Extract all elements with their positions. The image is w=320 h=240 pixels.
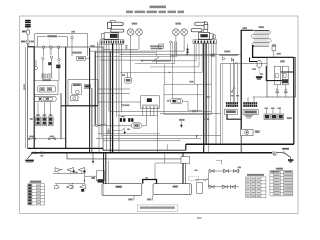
- wire: [108, 43, 110, 112]
- caption box: [137, 205, 178, 211]
- table B header: [276, 168, 283, 170]
- relay contact a: [40, 88, 45, 91]
- wire stub: [35, 60, 37, 66]
- label a small: [125, 45, 127, 46]
- diode D7: [209, 169, 213, 173]
- switch housing Rb: [282, 66, 288, 85]
- wire corner: [142, 43, 196, 61]
- diode D2: [67, 168, 74, 172]
- label A98 right: [260, 73, 263, 75]
- diode D8: [223, 169, 227, 173]
- wire: [110, 111, 211, 113]
- heavy jumper boxes: [143, 180, 157, 184]
- junction: [186, 54, 187, 55]
- switch plug 2: [210, 33, 214, 40]
- relay group outer: [34, 81, 58, 95]
- box center: [164, 84, 211, 114]
- label 4x2: [273, 154, 277, 155]
- wire: [96, 137, 201, 139]
- wire row2 right: [208, 186, 239, 188]
- label a1: [190, 81, 194, 83]
- heavy wire center b: [205, 43, 207, 144]
- capsule V pump: [131, 123, 142, 128]
- wire corner: [183, 101, 203, 110]
- contact circle: [42, 57, 44, 59]
- wire: [101, 43, 103, 137]
- heavy wire strip1: [112, 43, 114, 153]
- ground lever left: [27, 153, 32, 159]
- diode module b: [48, 74, 52, 78]
- fuse block 3: [48, 117, 53, 126]
- wire: [166, 144, 168, 150]
- fuse block 3 label: [49, 114, 53, 116]
- wire link rows: [84, 171, 86, 184]
- wire: [272, 109, 274, 114]
- switch F2: [48, 138, 50, 140]
- dashed contact: [155, 51, 157, 57]
- pin Rb: [285, 89, 287, 91]
- diode D12: [231, 185, 235, 189]
- wire: [155, 162, 181, 164]
- page number: [197, 217, 202, 219]
- wire: [118, 115, 158, 117]
- label N23: [259, 26, 264, 28]
- comp A32: [272, 46, 276, 50]
- dark connector box: [282, 79, 288, 83]
- diode D6: [80, 185, 86, 189]
- wire: [24, 47, 26, 148]
- wire: [58, 61, 60, 81]
- wire row1 right: [208, 170, 240, 172]
- lamp W33: [181, 29, 188, 36]
- ground left bar: [25, 160, 34, 162]
- ground A98: [256, 76, 263, 78]
- box motor V2: [241, 129, 253, 135]
- wire: [154, 163, 156, 180]
- ignition lever bar2: [111, 29, 124, 32]
- wire corner: [120, 43, 202, 72]
- wire: [104, 48, 138, 50]
- label KL30 right: [242, 27, 247, 29]
- wire: [98, 88, 130, 90]
- wire: [149, 108, 151, 116]
- relay J32 rounded: [72, 83, 82, 94]
- connector box small: [181, 157, 190, 164]
- fuse block 1: [36, 117, 41, 126]
- label a2 r2: [235, 63, 238, 64]
- wire: [175, 35, 177, 54]
- diode sym a: [222, 57, 225, 61]
- wire: [170, 55, 214, 57]
- lamp W6: [127, 29, 134, 36]
- dark connector: [84, 85, 90, 89]
- wire: [96, 42, 98, 125]
- label KL15: [90, 45, 95, 47]
- wire arrow REPU: [180, 121, 182, 125]
- wire: [98, 101, 141, 103]
- heavy wire: [89, 48, 91, 153]
- wire: [100, 59, 171, 61]
- pin Ra: [276, 89, 278, 91]
- pin circle: [170, 41, 172, 43]
- connector pair a: [120, 118, 122, 122]
- switch small box 2: [204, 29, 208, 32]
- labels M: [43, 79, 51, 81]
- heavy elbow coil: [253, 46, 294, 58]
- junction: [169, 72, 170, 73]
- contact circle: [50, 56, 52, 58]
- wire: [37, 102, 39, 117]
- wire corner: [95, 42, 177, 57]
- heavy bus right lower: [240, 136, 242, 153]
- wire: [210, 43, 212, 84]
- wire corner: [150, 43, 199, 67]
- big box E2: [153, 184, 191, 195]
- wire dotted: [195, 179, 209, 181]
- box control R2: [221, 64, 294, 145]
- switch F row wire: [28, 138, 66, 140]
- wire corner: [152, 43, 171, 61]
- legend table: [28, 183, 45, 185]
- label switch: [282, 148, 289, 150]
- label A98 left: [252, 68, 256, 70]
- trio labels right: [265, 108, 268, 110]
- label tW2: [206, 96, 210, 98]
- label F1: [29, 136, 33, 138]
- table A: [246, 176, 266, 178]
- label N25: [277, 53, 281, 55]
- wire row2 left: [55, 183, 85, 185]
- diode sym b: [231, 58, 234, 62]
- bus connector circles: [272, 152, 274, 154]
- heavy wire divider: [65, 47, 67, 148]
- pump inner: [43, 97, 52, 100]
- pin numbers: [142, 105, 158, 106]
- wire: [193, 44, 195, 84]
- wire: [157, 108, 159, 153]
- wire: [50, 102, 52, 117]
- switch housing 2: [199, 32, 210, 39]
- label t2: [192, 111, 196, 113]
- wire: [247, 97, 249, 102]
- big box E1: [102, 184, 142, 196]
- wire: [232, 60, 234, 102]
- legend header: [30, 181, 41, 183]
- label KL30: [22, 31, 26, 33]
- label F15: [284, 92, 288, 94]
- fuse trio right a: [264, 114, 270, 119]
- box E3: [197, 182, 203, 193]
- box corner top: [216, 160, 222, 164]
- half dark box: [96, 171, 104, 181]
- wire: [164, 94, 203, 96]
- label TW: [280, 60, 285, 62]
- bus corner wire: [67, 153, 181, 159]
- label N280: [72, 52, 82, 54]
- label Ay: [30, 118, 33, 120]
- ignition housing: [104, 33, 118, 39]
- box J32: [68, 80, 98, 106]
- relay J-inner: [38, 86, 56, 92]
- motor box: [71, 96, 78, 101]
- lamp label W32: [175, 23, 181, 25]
- label uv: [75, 172, 77, 174]
- stub label a: [128, 198, 132, 200]
- wire: [253, 97, 255, 102]
- bus slash: [37, 152, 41, 154]
- lamp W7: [136, 29, 143, 36]
- dashed wire: [49, 39, 51, 54]
- wire corner: [172, 42, 174, 99]
- wire row1 left: [53, 173, 85, 175]
- label a2 top: [71, 31, 75, 33]
- wire: [42, 60, 44, 81]
- wire: [33, 33, 35, 49]
- heavy stub: [182, 153, 184, 157]
- lamp W32: [173, 29, 180, 36]
- fuse block 1 label: [36, 114, 40, 116]
- wire corner: [135, 42, 175, 64]
- relay J-mid pins: [142, 106, 143, 107]
- junction: [141, 60, 142, 61]
- rail step right: [185, 144, 187, 150]
- switch housing Ra: [274, 66, 280, 85]
- wire: [90, 50, 184, 52]
- wire: [98, 93, 130, 95]
- bus stub arrow: [92, 153, 94, 162]
- relay J-mid core: [147, 98, 152, 102]
- heavy wire inner: [60, 93, 62, 139]
- wire: [130, 35, 132, 77]
- wire: [160, 112, 221, 114]
- label AL: [287, 117, 292, 119]
- connector pair b: [128, 118, 130, 122]
- wire: [233, 64, 235, 102]
- wire: [213, 43, 215, 56]
- switch slash: [154, 57, 159, 61]
- wire: [43, 49, 45, 57]
- wire: [146, 108, 148, 126]
- heavy feed top: [241, 29, 253, 31]
- wire: [105, 43, 107, 150]
- wire: [118, 43, 120, 153]
- relay J59: [71, 36, 74, 39]
- bus switch wire: [276, 152, 283, 154]
- relay N24: [125, 78, 132, 84]
- label ts: [195, 170, 198, 172]
- wire: [98, 125, 132, 127]
- terminal 15: [50, 46, 53, 49]
- label N24: [122, 74, 125, 76]
- label S-fuse left: [21, 41, 25, 43]
- heavy wire: [91, 88, 93, 153]
- wire: [27, 27, 29, 30]
- wire: [142, 125, 147, 127]
- wire: [98, 133, 160, 135]
- diode D5: [66, 185, 72, 189]
- wire: [164, 64, 166, 84]
- sensor G: [26, 40, 30, 44]
- heavy elbow R2: [227, 114, 241, 119]
- wire to box: [85, 175, 97, 177]
- lamp label W6: [132, 23, 138, 25]
- label F129 lines: [150, 45, 163, 47]
- capsule GM pin: [167, 100, 169, 102]
- component N280: [77, 56, 86, 60]
- wire: [183, 35, 185, 51]
- wire: [121, 43, 123, 112]
- diode D3: [78, 168, 85, 172]
- wire: [127, 72, 129, 77]
- main ground bus: [31, 152, 272, 154]
- wire: [215, 43, 217, 144]
- rail step left: [102, 148, 104, 150]
- ignition lever bar: [108, 22, 124, 25]
- box heater R1: [267, 57, 296, 97]
- heavy link R1: [281, 71, 294, 73]
- fuse S1: [26, 30, 29, 34]
- wire: [120, 53, 240, 55]
- wire: [107, 161, 109, 184]
- wire: [187, 44, 189, 55]
- wire: [279, 109, 281, 114]
- heavy elbow M: [266, 66, 285, 81]
- capsule A98: [257, 61, 261, 68]
- box control R2 inner: [222, 64, 224, 145]
- wire: [103, 135, 221, 137]
- switch contact left: [96, 125, 98, 127]
- ground mid: [106, 131, 110, 133]
- switch lever right: [285, 153, 291, 157]
- grid connector R2: [226, 102, 228, 104]
- label BEPU: [204, 118, 209, 120]
- wire: [86, 57, 90, 59]
- label C1: [224, 51, 230, 53]
- wire: [164, 153, 166, 163]
- wire: [207, 173, 209, 187]
- switch lever bar 2: [195, 22, 206, 25]
- wire: [27, 44, 29, 47]
- switch lever bar2b: [191, 29, 202, 32]
- heavy bus right: [240, 30, 242, 129]
- label Ay3 bus: [41, 155, 44, 157]
- connector strip 2: [193, 40, 217, 44]
- contact circle: [58, 58, 60, 60]
- label box V2: [255, 131, 259, 133]
- title line 2: [126, 11, 133, 14]
- left big box: [28, 47, 103, 148]
- diode D1: [55, 168, 61, 172]
- diode D9: [235, 169, 239, 173]
- box T16: [243, 110, 258, 115]
- bus circles left: [32, 152, 34, 154]
- relay box J-mid: [141, 96, 160, 109]
- wire: [113, 129, 121, 131]
- switch element X: [56, 65, 60, 69]
- wire: [237, 64, 239, 102]
- diode D11: [222, 185, 226, 189]
- relay coil circle: [76, 90, 80, 94]
- wire: [169, 100, 171, 102]
- resistor sym row2: [55, 186, 59, 189]
- wire: [27, 34, 29, 40]
- wire: [43, 102, 45, 117]
- heavy right edge: [293, 57, 295, 144]
- terminal 30: [42, 46, 45, 49]
- box J32 bottom heavy: [61, 105, 98, 107]
- diode D10: [209, 185, 213, 189]
- label A32 right: [272, 44, 276, 46]
- label dark small: [91, 177, 95, 179]
- wire: [208, 43, 210, 153]
- vertical label: [23, 84, 25, 90]
- dashed contact A98: [258, 68, 260, 74]
- wire: [95, 51, 156, 53]
- fuse block 2: [42, 117, 47, 126]
- diode module a: [42, 74, 46, 78]
- wire: [273, 51, 275, 58]
- battery terminal block: [25, 20, 31, 22]
- switch R2 sym: [232, 88, 235, 92]
- switch elbow 2: [204, 24, 208, 29]
- wire: [116, 43, 118, 117]
- label F14: [275, 92, 279, 94]
- label box tW: [211, 54, 215, 56]
- wire: [51, 58, 53, 74]
- pressure comp: [159, 44, 164, 48]
- connector marks: [187, 49, 189, 51]
- heavy pair into box1: [103, 153, 105, 184]
- fuse trio right c: [278, 114, 284, 119]
- box B top: [35, 33, 87, 56]
- wire: [71, 39, 73, 56]
- label UFB: [122, 104, 124, 106]
- box J255 top: [37, 37, 67, 47]
- wire: [58, 49, 60, 58]
- wire: [103, 140, 181, 142]
- wire: [50, 49, 52, 56]
- wire: [98, 43, 100, 153]
- wire: [229, 64, 231, 102]
- heavy wire: [94, 52, 96, 125]
- box R1 ext line: [253, 96, 267, 98]
- heavy wire strip1b: [109, 51, 111, 153]
- wire: [103, 43, 105, 125]
- fuse block 2 label: [43, 114, 47, 116]
- fuse trio right b: [271, 114, 277, 119]
- heavy feed A98: [250, 57, 258, 61]
- ground right: [288, 159, 293, 161]
- label block amps: [219, 54, 238, 56]
- table B: [270, 169, 293, 171]
- label F2: [50, 136, 54, 138]
- pump housing: [34, 96, 56, 101]
- ground diamond: [34, 66, 38, 70]
- wire: [153, 108, 155, 116]
- table A header: [247, 174, 264, 176]
- wire: [138, 35, 140, 49]
- stub label b: [147, 198, 151, 200]
- label A32 pair: [121, 116, 125, 118]
- label W right: [238, 167, 241, 169]
- switch element: [48, 62, 51, 65]
- wire: [197, 84, 199, 112]
- wire: [266, 109, 268, 114]
- ignition lever post: [108, 22, 112, 28]
- wire: [155, 60, 157, 63]
- wire heavy to box: [28, 46, 34, 48]
- switch W sym: [121, 128, 125, 131]
